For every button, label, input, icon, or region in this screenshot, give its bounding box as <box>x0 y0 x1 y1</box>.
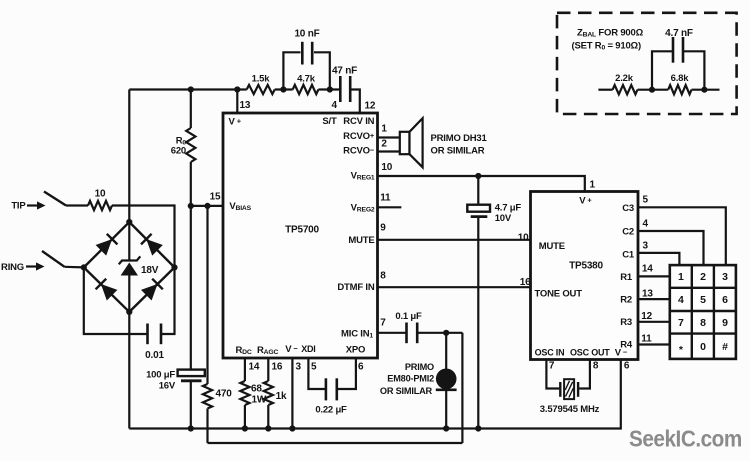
label <box>322 116 337 127</box>
svg-text:16V: 16V <box>159 381 176 392</box>
svg-text:3: 3 <box>643 241 649 252</box>
wire <box>598 89 612 91</box>
svg-text:8: 8 <box>380 271 386 282</box>
svg-text:7: 7 <box>678 317 684 329</box>
junction <box>649 87 655 93</box>
label <box>620 272 633 283</box>
svg-text:RCV IN: RCV IN <box>343 116 374 127</box>
label <box>229 201 251 212</box>
diode CR3 <box>96 279 118 301</box>
label U1 name <box>285 225 319 236</box>
junction <box>242 425 248 431</box>
label <box>343 131 375 142</box>
svg-text:16: 16 <box>272 362 283 373</box>
svg-text:11: 11 <box>380 193 391 204</box>
svg-text:R4: R4 <box>620 340 633 351</box>
pin 5 label <box>311 362 317 373</box>
zener 18V <box>119 222 159 312</box>
label <box>539 241 565 252</box>
capacitor 100uF 16V <box>146 206 205 429</box>
pin 1 label <box>590 180 596 191</box>
capacitor 4.7nF <box>652 28 704 90</box>
wire C2 to keypad col2 <box>638 231 704 265</box>
svg-text:4.7k: 4.7k <box>297 74 316 85</box>
label <box>622 227 634 238</box>
svg-text:7: 7 <box>549 361 555 372</box>
svg-text:10 nF: 10 nF <box>294 29 319 40</box>
pin 7 <box>380 318 386 329</box>
svg-text:620: 620 <box>171 146 186 157</box>
label <box>229 116 242 127</box>
wire <box>692 89 720 91</box>
wire left rail <box>128 90 130 223</box>
balance network inset box <box>557 13 737 114</box>
label <box>346 345 365 356</box>
wire R2 to keypad <box>638 298 670 300</box>
svg-text:4: 4 <box>332 100 338 111</box>
label microphone <box>380 362 434 396</box>
label <box>348 235 374 246</box>
junction <box>188 203 194 209</box>
svg-text:XPO: XPO <box>346 345 365 356</box>
junction <box>475 173 481 179</box>
pin 14 label <box>249 362 260 373</box>
svg-text:11: 11 <box>641 334 652 345</box>
svg-text:6: 6 <box>358 362 364 373</box>
pin 5 label <box>643 195 649 206</box>
pin 3 label <box>643 241 649 252</box>
svg-text:#: # <box>722 341 728 353</box>
svg-text:2.2k: 2.2k <box>615 73 634 84</box>
label speaker <box>431 133 488 157</box>
junction bridge bottom <box>126 309 132 315</box>
resistor 68 1W <box>240 358 267 429</box>
label <box>620 340 633 351</box>
pin 13 <box>240 100 251 111</box>
label <box>622 250 635 261</box>
resistor 10 <box>88 189 112 211</box>
junction <box>289 425 295 431</box>
diode CR2 <box>141 234 163 256</box>
resistor 1k <box>264 358 287 429</box>
svg-text:4.7 μF: 4.7 μF <box>495 203 522 214</box>
junction bridge left <box>81 264 87 270</box>
junction <box>188 86 194 92</box>
label <box>343 145 375 156</box>
wire <box>418 332 462 334</box>
wire VREG2 stub <box>378 206 402 208</box>
capacitor 0.01 <box>84 267 175 361</box>
svg-text:1.5k: 1.5k <box>252 74 271 85</box>
svg-text:47 nF: 47 nF <box>332 66 357 77</box>
capacitor 47nF <box>332 66 360 114</box>
pin 6 label <box>358 362 364 373</box>
svg-text:OSC IN: OSC IN <box>535 348 565 358</box>
pin 10 <box>381 162 392 173</box>
wire pin7 stub <box>546 360 559 389</box>
svg-text:R3: R3 <box>620 317 632 328</box>
pin 12 label <box>641 311 652 322</box>
svg-text:MIC IN1: MIC IN1 <box>341 329 373 340</box>
speaker LS1 <box>400 118 423 167</box>
pin 3 label <box>296 362 302 373</box>
svg-text:3.579545 MHz: 3.579545 MHz <box>540 404 600 415</box>
pin 1 <box>381 124 387 135</box>
svg-text:2: 2 <box>381 139 387 150</box>
pin 11 <box>380 193 391 204</box>
svg-text:1k: 1k <box>276 391 287 402</box>
wire VREG1 to TP5380 V+ <box>378 176 585 192</box>
wire bridge edge <box>84 222 130 267</box>
svg-text:5: 5 <box>700 294 706 306</box>
svg-text:0.01: 0.01 <box>145 350 164 361</box>
svg-text:0.1 μF: 0.1 μF <box>395 311 422 322</box>
svg-text:8: 8 <box>593 361 599 372</box>
capacitor 0.1uF <box>395 311 422 343</box>
wire DTMF to TONE OUT <box>378 286 531 288</box>
svg-text:C1: C1 <box>622 250 635 261</box>
svg-text:5: 5 <box>643 195 649 206</box>
resistor 2.2k <box>613 73 638 94</box>
svg-text:13: 13 <box>642 289 653 300</box>
svg-text:4.7 nF: 4.7 nF <box>665 28 693 39</box>
junction <box>701 87 707 93</box>
pin 11 label <box>641 334 652 345</box>
capacitor 0.22uF <box>308 358 356 416</box>
diode CR1 <box>96 234 118 256</box>
svg-text:(SET R0 = 910Ω): (SET R0 = 910Ω) <box>572 41 641 52</box>
wire bridge edge <box>129 222 174 267</box>
wire RCVO- to speaker <box>378 150 400 152</box>
svg-text:MUTE: MUTE <box>539 241 565 252</box>
wire R1 to keypad <box>638 275 670 277</box>
wire R4 to keypad <box>638 343 670 345</box>
svg-text:5: 5 <box>311 362 317 373</box>
svg-text:TP5380: TP5380 <box>569 261 603 272</box>
svg-text:XDI: XDI <box>301 344 315 354</box>
svg-text:14: 14 <box>642 264 653 275</box>
junction <box>265 425 271 431</box>
label <box>351 171 375 182</box>
svg-text:DTMF IN: DTMF IN <box>337 282 374 293</box>
svg-text:TIP: TIP <box>11 201 26 212</box>
label <box>622 203 634 214</box>
pin 8 <box>380 271 386 282</box>
node TIP <box>11 201 45 212</box>
wire <box>461 333 463 443</box>
svg-text:6: 6 <box>722 294 728 306</box>
pin 16 label <box>520 277 531 288</box>
keypad 4x3 <box>670 265 736 359</box>
junction <box>280 86 286 92</box>
svg-text:R1: R1 <box>620 272 633 283</box>
op-amp U1 TP5700 box <box>223 113 378 358</box>
resistor 4.7k <box>293 74 319 95</box>
pin 16 label <box>272 362 283 373</box>
label <box>615 347 628 358</box>
junction <box>443 425 449 431</box>
svg-text:10V: 10V <box>495 213 512 224</box>
svg-text:16: 16 <box>520 277 531 288</box>
diode CR4 <box>141 279 163 301</box>
svg-text:9: 9 <box>722 317 728 329</box>
watermark <box>629 425 742 451</box>
label <box>579 195 592 206</box>
junction <box>475 425 481 431</box>
microphone MK1 <box>436 333 457 429</box>
resistor 6.8k <box>668 73 691 94</box>
label <box>301 344 315 354</box>
junction bridge right <box>171 264 177 270</box>
label <box>535 289 583 300</box>
wire pin13 stub <box>236 90 238 114</box>
svg-text:1: 1 <box>381 124 387 135</box>
junction <box>188 425 194 431</box>
label <box>285 344 298 355</box>
wire RCVO+ to speaker <box>378 136 400 138</box>
label <box>620 295 632 306</box>
pin 8 label <box>593 361 599 372</box>
label <box>235 345 251 356</box>
svg-text:4: 4 <box>678 294 684 306</box>
pin 4 label <box>643 219 649 230</box>
svg-text:1: 1 <box>678 271 684 283</box>
svg-text:3: 3 <box>722 271 728 283</box>
svg-text:0.22 μF: 0.22 μF <box>315 405 347 416</box>
svg-text:7: 7 <box>380 318 386 329</box>
svg-text:TONE OUT: TONE OUT <box>535 289 583 300</box>
junction bridge top <box>126 219 132 225</box>
pin 2 <box>381 139 387 150</box>
label set r0 <box>572 41 641 52</box>
op-amp U2 TP5380 box <box>531 192 639 360</box>
label <box>337 282 374 293</box>
svg-text:C3: C3 <box>622 203 634 214</box>
label <box>620 317 632 328</box>
pin 9 <box>380 223 386 234</box>
pin 7 label <box>549 361 555 372</box>
svg-text:15: 15 <box>210 192 221 203</box>
svg-text:10: 10 <box>518 233 529 244</box>
svg-text:10: 10 <box>95 189 106 200</box>
wire V- pin3 <box>291 358 293 429</box>
svg-text:MUTE: MUTE <box>348 235 374 246</box>
pin 10 label <box>518 233 529 244</box>
svg-text:8: 8 <box>700 317 706 329</box>
pin 13 label <box>642 289 653 300</box>
label <box>341 329 373 340</box>
resistor 470 <box>203 206 232 443</box>
svg-text:12: 12 <box>365 101 376 112</box>
label <box>570 348 610 358</box>
wire <box>65 266 84 269</box>
svg-text:6.8k: 6.8k <box>671 73 690 84</box>
svg-text:9: 9 <box>380 223 386 234</box>
junction node S/T <box>327 86 333 92</box>
label <box>343 116 374 127</box>
svg-text:EM80-PMI2: EM80-PMI2 <box>387 374 434 384</box>
keypad digits <box>678 271 728 356</box>
junction <box>443 330 449 336</box>
pin 12 <box>365 101 376 112</box>
svg-text:68: 68 <box>251 384 262 395</box>
wire C3 to keypad col3 <box>638 207 726 265</box>
svg-text:100 μF: 100 μF <box>146 370 175 381</box>
svg-text:SeekIC.com: SeekIC.com <box>629 425 742 451</box>
pin 4 <box>332 100 338 111</box>
svg-text:S/T: S/T <box>322 116 337 127</box>
label <box>535 348 565 358</box>
svg-text:1: 1 <box>590 180 596 191</box>
svg-text:14: 14 <box>249 362 260 373</box>
wire bridge edge <box>129 267 174 312</box>
svg-text:10: 10 <box>381 162 392 173</box>
wire MIC IN1 <box>378 332 406 334</box>
svg-text:PRIMO: PRIMO <box>405 362 434 372</box>
resistor R0 620 <box>171 90 196 206</box>
wire bridge edge <box>84 267 130 312</box>
crystal Y1 3.579545MHz <box>560 360 590 400</box>
junction <box>204 203 210 209</box>
wire top supply rail <box>129 88 246 90</box>
svg-text:TP5700: TP5700 <box>285 225 319 236</box>
svg-text:470: 470 <box>216 389 233 400</box>
resistor 1.5k <box>247 74 275 95</box>
svg-text:OSC OUT: OSC OUT <box>570 348 610 358</box>
svg-text:OR SIMILAR: OR SIMILAR <box>431 146 485 157</box>
wire MUTE <box>378 239 531 241</box>
capacitor 4.7uF 10V <box>467 176 521 429</box>
label crystal <box>540 404 600 415</box>
svg-text:18V: 18V <box>141 265 159 276</box>
node RING <box>1 262 44 273</box>
wire TIP switch blade <box>44 192 66 206</box>
label <box>351 203 375 214</box>
svg-text:3: 3 <box>296 362 302 373</box>
wire R3 to keypad <box>638 321 670 323</box>
svg-text:12: 12 <box>641 311 652 322</box>
label <box>257 345 278 356</box>
pin 6 label <box>624 361 630 372</box>
wire lower bias rail <box>208 442 463 444</box>
wire bridge bottom to rail <box>128 312 130 429</box>
svg-text:13: 13 <box>240 100 251 111</box>
pin 15 <box>210 192 221 203</box>
junction <box>234 86 240 92</box>
svg-text:2: 2 <box>700 271 706 283</box>
svg-text:0: 0 <box>700 341 706 353</box>
svg-text:C2: C2 <box>622 227 634 238</box>
label Zbal <box>577 28 644 39</box>
wire <box>66 204 88 206</box>
wire <box>112 206 175 268</box>
wire <box>275 88 293 90</box>
wire VBIAS pin15 <box>191 205 223 207</box>
pin 14 label <box>642 264 653 275</box>
svg-text:RING: RING <box>1 262 24 273</box>
svg-text:6: 6 <box>624 361 630 372</box>
wire <box>638 89 669 91</box>
wire V- supply rail <box>129 360 621 429</box>
svg-text:R2: R2 <box>620 295 632 306</box>
capacitor 10nF feedback <box>283 29 329 90</box>
svg-text:PRIMO DH31: PRIMO DH31 <box>431 133 488 144</box>
label U2 name <box>569 261 603 272</box>
wire RING switch blade <box>42 251 65 267</box>
svg-text:4: 4 <box>643 219 649 230</box>
wire <box>318 88 340 90</box>
svg-text:OR SIMILAR: OR SIMILAR <box>380 386 433 396</box>
wire C1 to keypad col1 <box>638 253 679 265</box>
